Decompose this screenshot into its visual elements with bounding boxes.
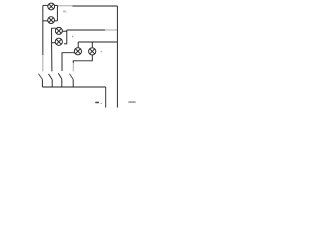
label B1 terminal [95, 102, 101, 104]
wire gray drop to switch Q4 [72, 63, 74, 71]
wire bus drop to terminal [105, 87, 107, 108]
wire H1 to junction [54, 4, 57, 6]
wire bottom bus [42, 86, 105, 88]
node label A1 [63, 10, 66, 12]
wire H5 top stub [77, 42, 79, 48]
lamp H5 [74, 48, 81, 55]
wire corner feed to H5 [62, 53, 75, 71]
wire group3 output to right rail [78, 41, 117, 43]
right rail of group 1 [56, 5, 58, 20]
label source text [128, 101, 136, 102]
switch Q3 [58, 73, 62, 87]
lamp H6 [89, 48, 96, 55]
left rail gray lower part to switch Q1 [42, 55, 44, 71]
group 2 right rail [66, 30, 68, 44]
lamp H4 [55, 38, 62, 45]
node label A2 [72, 36, 73, 38]
wire top feeder gray segment [57, 5, 72, 7]
wire left rail to H4 [52, 42, 56, 44]
left rail from group 1 down [42, 5, 44, 55]
switch Q2 [49, 74, 53, 87]
wire corner into H3 [52, 28, 57, 43]
lamp H2 [48, 17, 55, 24]
wire H6 bottom stub and return toward switch Q4 [73, 55, 92, 63]
wire H6 top stub [91, 42, 93, 48]
wire top feeder to right rail corner [72, 5, 117, 7]
switch Q1 [39, 74, 43, 87]
wire H3 to group2 right rail [62, 30, 66, 32]
wire from left rail to H1 [43, 4, 48, 6]
wire group2 output [67, 29, 105, 31]
node label A3 [101, 51, 102, 52]
wire left rail to H2 [43, 20, 48, 22]
left rail group2 down to switch Q2 [51, 43, 53, 72]
wire rail hook to H4 [64, 43, 67, 45]
right rail (return) [116, 6, 118, 108]
lamp H3 [55, 27, 62, 34]
switch Q4 [70, 74, 74, 87]
wire group2 output gray segment [105, 29, 117, 31]
wire H2 to right rail [54, 20, 57, 22]
lamp H1 [48, 3, 55, 10]
